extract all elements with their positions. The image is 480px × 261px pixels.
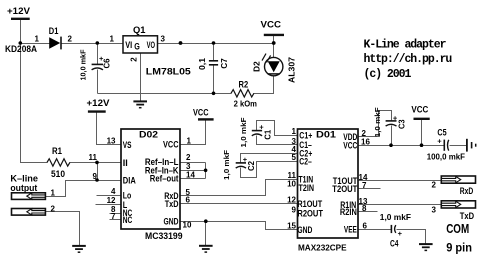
svg-text:VO: VO bbox=[147, 40, 155, 50]
ground under C4 bbox=[419, 244, 433, 250]
svg-text:16: 16 bbox=[361, 138, 370, 147]
svg-text:Ref–out: Ref–out bbox=[150, 174, 179, 184]
IC U DD2 MC33199 bbox=[121, 129, 180, 229]
svg-text:11: 11 bbox=[89, 153, 98, 162]
svg-text:2: 2 bbox=[68, 34, 73, 43]
svg-text:4: 4 bbox=[111, 187, 116, 196]
svg-text:D2: D2 bbox=[253, 61, 262, 72]
svg-text:R1: R1 bbox=[52, 146, 62, 156]
connector K-line output pin 2 bbox=[12, 204, 56, 215]
svg-text:MAX232CPE: MAX232CPE bbox=[298, 243, 347, 253]
svg-text:C7: C7 bbox=[220, 58, 229, 69]
resistor R2 bbox=[231, 90, 254, 97]
svg-text:2: 2 bbox=[186, 153, 191, 162]
svg-text:DIA: DIA bbox=[123, 175, 136, 185]
wire GND net to ground symbol bbox=[205, 222, 207, 246]
svg-text:KD208A: KD208A bbox=[5, 44, 37, 54]
wire R2IN pin8 stub bbox=[359, 211, 378, 213]
svg-text:Q1: Q1 bbox=[133, 25, 146, 35]
svg-text:VCC: VCC bbox=[261, 20, 282, 30]
svg-text:2 kOm: 2 kOm bbox=[234, 99, 258, 109]
svg-text:5: 5 bbox=[292, 153, 297, 162]
svg-text:1: 1 bbox=[110, 34, 115, 43]
svg-text:12: 12 bbox=[287, 196, 296, 205]
svg-text:+12V: +12V bbox=[87, 98, 111, 108]
svg-text:3: 3 bbox=[161, 34, 166, 43]
resistor R1 bbox=[47, 159, 70, 166]
svg-text:R2OUT: R2OUT bbox=[297, 209, 323, 219]
svg-text:0,1: 0,1 bbox=[198, 57, 207, 70]
capacitor C2 bbox=[236, 163, 246, 168]
svg-text:10: 10 bbox=[183, 221, 192, 230]
wire +12V rail down to R1 bbox=[21, 44, 48, 163]
wire Ref-In-K pin3 bbox=[181, 170, 206, 172]
svg-text:9: 9 bbox=[93, 172, 98, 181]
wire C1 minus to pin3 C1- bbox=[257, 136, 298, 145]
connector TxD COM pin 3 bbox=[432, 201, 476, 221]
wire K-line output 2 to ground bbox=[46, 212, 80, 246]
wire Q1 VO rail to D2 VCC node bbox=[158, 43, 274, 45]
wire C7 bottom lead bbox=[213, 65, 215, 94]
svg-text:+: + bbox=[437, 137, 442, 146]
svg-text:15: 15 bbox=[287, 221, 296, 230]
svg-text:C3: C3 bbox=[398, 119, 407, 129]
svg-text:1,0 mkF: 1,0 mkF bbox=[224, 149, 231, 180]
svg-text:GND: GND bbox=[164, 216, 179, 226]
svg-text:+12V: +12V bbox=[7, 6, 31, 16]
wire R1IN pin13 to TxD connector bbox=[359, 204, 442, 206]
IC U DD1 MAX232CPE bbox=[298, 129, 359, 238]
wire VCC bar to D2 anode bbox=[273, 35, 275, 58]
svg-text:VCC: VCC bbox=[193, 108, 209, 118]
svg-text:1: 1 bbox=[292, 127, 297, 136]
capacitor C3 bbox=[386, 121, 397, 126]
wire T1OUT pin14 to RxD connector bbox=[359, 180, 442, 182]
svg-text:K-Line adapter: K-Line adapter bbox=[364, 39, 447, 52]
svg-text:T2IN: T2IN bbox=[299, 183, 315, 193]
svg-text:1,0 mkF: 1,0 mkF bbox=[241, 117, 248, 148]
wire DIA pin9 to K-line output 1 bbox=[46, 181, 122, 197]
power +12V top-left bar bbox=[11, 18, 30, 20]
svg-text:9 pin: 9 pin bbox=[446, 241, 472, 255]
svg-text:7: 7 bbox=[111, 212, 116, 221]
svg-text:G: G bbox=[134, 42, 140, 52]
svg-text:13: 13 bbox=[107, 137, 116, 146]
svg-text:14: 14 bbox=[186, 171, 195, 180]
svg-text:II: II bbox=[123, 158, 128, 168]
connector K-line output pin 1 bbox=[12, 188, 56, 199]
svg-text:1: 1 bbox=[187, 136, 192, 145]
svg-text:3: 3 bbox=[432, 205, 437, 214]
svg-text:D01: D01 bbox=[316, 129, 336, 139]
wire Q1 pin2 stem to ground bbox=[140, 54, 142, 102]
svg-text:1,0 mkF: 1,0 mkF bbox=[380, 212, 411, 222]
svg-text:COM: COM bbox=[446, 221, 469, 236]
svg-text:VCC: VCC bbox=[411, 105, 428, 115]
svg-text:http://ch.pp.ru: http://ch.pp.ru bbox=[364, 53, 453, 66]
svg-text:1: 1 bbox=[35, 34, 40, 43]
wire C5 to sideways ground bbox=[450, 145, 467, 147]
wire +12V stem to main rail bbox=[20, 20, 22, 44]
capacitor C6 bbox=[92, 64, 103, 69]
svg-text:C1+: C1+ bbox=[299, 130, 312, 140]
svg-text:T2OUT: T2OUT bbox=[332, 184, 357, 194]
svg-text:VS: VS bbox=[123, 140, 132, 150]
wire ground rail bbox=[98, 93, 232, 95]
svg-text:12: 12 bbox=[107, 196, 116, 205]
svg-text:R1OUT: R1OUT bbox=[297, 199, 322, 209]
capacitor C7 bbox=[209, 61, 218, 65]
wire C6 top lead bbox=[97, 44, 99, 65]
connector RxD COM pin 2 bbox=[432, 176, 476, 196]
svg-text:R2: R2 bbox=[239, 80, 249, 90]
capacitor C1 bbox=[252, 131, 262, 136]
svg-text:TxD: TxD bbox=[165, 199, 179, 209]
wire NC pin7 stub bbox=[110, 219, 122, 221]
wire TxD pin6 to R1OUT bbox=[181, 203, 298, 205]
svg-text:C2: C2 bbox=[247, 160, 256, 171]
svg-text:VCC: VCC bbox=[343, 141, 357, 151]
power VCC bar right bbox=[414, 118, 430, 120]
wire C6 bottom lead bbox=[97, 70, 99, 94]
svg-text:C4: C4 bbox=[390, 239, 399, 249]
svg-text:VEE: VEE bbox=[344, 225, 357, 235]
svg-text:VI: VI bbox=[125, 40, 132, 50]
svg-text:8: 8 bbox=[362, 204, 367, 213]
svg-text:C1: C1 bbox=[264, 129, 273, 140]
wire NC pin8 stub bbox=[110, 213, 122, 215]
svg-text:GND: GND bbox=[297, 225, 312, 235]
capacitor C5 bbox=[444, 140, 448, 151]
power VCC bar above MC33199 bbox=[198, 118, 214, 120]
ground under Q1 bbox=[133, 101, 147, 107]
wire RxD pin5 to T1IN bbox=[181, 180, 298, 196]
ground sideways right of C5 bbox=[467, 139, 476, 152]
wire +12V to VS pin13 bbox=[97, 112, 122, 145]
wire node pin11 to DIA bbox=[97, 163, 99, 181]
ground under K-line output 2 bbox=[72, 246, 86, 252]
svg-text:2: 2 bbox=[130, 57, 139, 62]
svg-text:MC33199: MC33199 bbox=[145, 231, 183, 241]
svg-text:2: 2 bbox=[362, 129, 367, 138]
capacitor C4 bbox=[391, 225, 395, 233]
wire R2 to D2 cathode bbox=[254, 76, 274, 94]
svg-text:6: 6 bbox=[363, 222, 368, 231]
wire C2 minus to pin5 C2- bbox=[241, 162, 298, 178]
svg-text:C5: C5 bbox=[437, 128, 446, 138]
ground under MC33199 GND bbox=[199, 246, 213, 252]
wire R1 to II pin11 bbox=[70, 162, 122, 164]
wire VEE pin6 to C4 bbox=[359, 229, 392, 231]
svg-text:output: output bbox=[10, 183, 37, 193]
wire ref pins tie vertical bbox=[205, 163, 207, 179]
wire C2 plus to pin4 C2+ bbox=[241, 154, 298, 163]
svg-text:2: 2 bbox=[51, 204, 56, 213]
svg-text:100,0 mkF: 100,0 mkF bbox=[427, 152, 465, 162]
svg-text:VCC: VCC bbox=[163, 139, 179, 149]
svg-text:TxD: TxD bbox=[460, 211, 475, 221]
svg-text:D1: D1 bbox=[49, 26, 59, 36]
wire Ref-out pin14 bbox=[181, 178, 206, 180]
svg-text:LM78L05: LM78L05 bbox=[146, 67, 191, 77]
svg-text:7: 7 bbox=[362, 181, 367, 190]
wire L pin12 stub bbox=[96, 204, 122, 206]
svg-text:1,0 mkF: 1,0 mkF bbox=[375, 106, 382, 137]
svg-text:C6: C6 bbox=[103, 58, 112, 69]
node junction dots bbox=[19, 41, 424, 223]
svg-text:AL307: AL307 bbox=[288, 56, 297, 83]
svg-text:RxD: RxD bbox=[460, 186, 474, 196]
wire C3 bottom to VCC pin16 line bbox=[391, 126, 393, 146]
wire C4 to ground bbox=[397, 230, 426, 244]
wire C3 loop to pin2 VDD bbox=[359, 111, 392, 137]
wire Ref-In-L pin2 bbox=[181, 162, 206, 164]
wire C7 top lead bbox=[213, 44, 215, 61]
svg-text:510: 510 bbox=[51, 169, 65, 179]
wire VCC symbol to MC33199 pin1 bbox=[181, 120, 206, 145]
svg-text:K–line: K–line bbox=[10, 173, 38, 183]
regulator U Q1 LM78L05 bbox=[123, 36, 158, 53]
svg-text:R2IN: R2IN bbox=[340, 207, 357, 217]
diode D1 bbox=[49, 37, 60, 48]
LED D2 bbox=[253, 54, 297, 83]
svg-text:D02: D02 bbox=[139, 129, 158, 139]
svg-text:10,0 mkF: 10,0 mkF bbox=[81, 49, 88, 81]
svg-text:NC: NC bbox=[123, 215, 133, 225]
svg-text:9: 9 bbox=[292, 206, 297, 215]
wire Lo pin4 stub bbox=[97, 195, 122, 197]
wire GND pin10 to GND pin15 bbox=[181, 222, 298, 230]
wire T2OUT pin7 stub bbox=[359, 188, 381, 190]
svg-text:(c) 2001: (c) 2001 bbox=[364, 68, 412, 81]
svg-text:2: 2 bbox=[432, 180, 437, 189]
wire C1 plus loop to pin1 C1+ bbox=[257, 121, 298, 136]
svg-text:1: 1 bbox=[51, 188, 56, 197]
wire VCC symbol stem right bbox=[421, 119, 423, 146]
wire VCC pin16 rail to C5 bbox=[359, 145, 444, 147]
wire main rail to D1 anode bbox=[21, 43, 50, 45]
power VCC bar above D2 bbox=[264, 34, 284, 36]
svg-text:6: 6 bbox=[186, 195, 191, 204]
svg-text:C2–: C2– bbox=[299, 156, 312, 166]
svg-text:+: + bbox=[398, 229, 403, 238]
svg-text:10: 10 bbox=[287, 180, 296, 189]
power +12V bar for VS bbox=[88, 110, 106, 112]
wire D1 cathode to Q1 VI bbox=[62, 43, 124, 45]
